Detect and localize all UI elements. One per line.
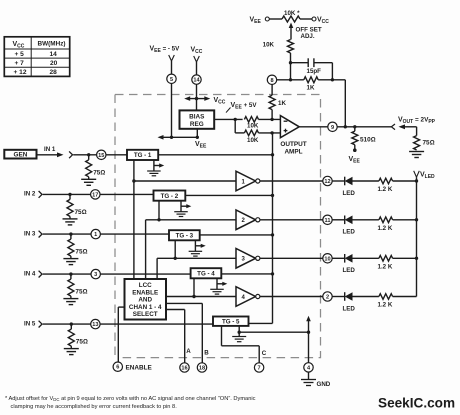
wire channel-2 select: [146, 201, 161, 279]
generator GEN source: [4, 146, 56, 159]
wire pin 15 to TG-1: [106, 154, 127, 156]
svg-text:10K: 10K: [247, 122, 259, 129]
transmission gate TG-3: [169, 230, 200, 240]
svg-text:2: 2: [326, 295, 329, 301]
pin 11: [323, 215, 332, 224]
svg-text:IN 5: IN 5: [24, 320, 36, 327]
decoder LCC ENABLE AND CHAN 1-4 SELECT: [125, 279, 167, 320]
svg-text:8: 8: [270, 78, 273, 84]
svg-text:ADJ.: ADJ.: [301, 33, 315, 40]
svg-text:75Ω: 75Ω: [423, 140, 435, 147]
wire output row: [337, 125, 391, 128]
pin 13: [91, 319, 100, 328]
pin 8: [267, 75, 276, 84]
wire channel-4 select: [192, 278, 195, 298]
ground termination IN4: [63, 298, 78, 300]
svg-text:BW(MHz): BW(MHz): [38, 41, 66, 48]
potentiometer 10K* offset adjust: [250, 10, 330, 25]
wire pin5 stem: [171, 61, 173, 74]
resistor 510 ohm pulldown: [352, 127, 376, 152]
svg-text:IN 3: IN 3: [24, 230, 36, 237]
resistor 1.2K LED 4: [353, 294, 417, 309]
wire GEN to IN1 node: [37, 151, 97, 158]
input IN 2: [24, 191, 91, 198]
svg-text:10K: 10K: [247, 137, 259, 144]
resistor 75 ohm termination IN1: [86, 155, 106, 180]
buffer 3 LED driver: [236, 249, 260, 269]
resistor 75 ohm load: [414, 136, 435, 150]
svg-text:9: 9: [331, 125, 334, 131]
svg-text:12: 12: [324, 179, 330, 185]
LED channel 3: [332, 254, 355, 274]
svg-text:18: 18: [199, 366, 205, 372]
svg-text:* Adjust offset for VDC at pin: * Adjust offset for VDC at pin 9 equal t…: [5, 396, 256, 402]
svg-text:28: 28: [50, 69, 58, 76]
svg-text:510Ω: 510Ω: [360, 137, 376, 144]
wire pin 1 to TG-3: [100, 233, 169, 235]
svg-text:CHAN 1 - 4: CHAN 1 - 4: [129, 304, 162, 311]
wire pin5 to VEE rail: [171, 84, 173, 138]
svg-text:1K: 1K: [307, 85, 315, 92]
svg-text:OUTPUT: OUTPUT: [280, 141, 306, 148]
pin 14: [192, 75, 201, 84]
resistor 10K upper: [244, 117, 280, 130]
ground termination IN3: [63, 258, 78, 260]
resistor 75 ohm termination IN2: [67, 194, 87, 219]
svg-text:1.2 K: 1.2 K: [378, 263, 393, 270]
wire buffer-3 input row: [157, 257, 236, 259]
svg-text:IN 2: IN 2: [24, 191, 36, 198]
svg-text:B: B: [204, 350, 209, 357]
svg-text:TG - 2: TG - 2: [161, 193, 179, 200]
svg-text:LED: LED: [343, 229, 356, 236]
pin 12: [323, 176, 332, 185]
svg-text:GEN: GEN: [13, 152, 27, 159]
svg-text:IN 4: IN 4: [24, 270, 36, 277]
svg-text:14: 14: [193, 78, 200, 84]
svg-text:TG - 4: TG - 4: [197, 271, 215, 278]
svg-text:ENABLE: ENABLE: [132, 289, 158, 296]
wire buffer-1 input row: [134, 180, 236, 182]
transmission gate TG-5: [213, 317, 249, 326]
svg-text:LED: LED: [343, 305, 356, 312]
svg-text:1K: 1K: [278, 100, 286, 107]
pin 3: [91, 269, 100, 278]
wire pin14 to bias regulator: [196, 84, 198, 110]
node mux bus junctions: [271, 153, 274, 275]
wire op-amp output: [299, 126, 328, 128]
wire pin 17 to TG-2: [100, 193, 154, 195]
resistor 1.2K LED 1: [353, 178, 417, 193]
svg-text:1: 1: [94, 232, 97, 238]
wire TG-3 output to mux bus: [200, 234, 273, 236]
wire bias reg to VEE rail: [196, 129, 198, 138]
wire feedback to output node: [344, 80, 346, 127]
transmission gate TG-1: [127, 150, 158, 160]
resistor 1.2K LED 3: [353, 255, 417, 270]
connector chevron output: [391, 124, 395, 130]
pin 16: [180, 363, 189, 372]
svg-text:AND: AND: [138, 297, 152, 304]
ground TG-3: [189, 240, 206, 256]
resistor 75 ohm termination IN3: [68, 234, 88, 259]
wire to load with arrow: [399, 124, 417, 135]
resistor 1K feedback: [277, 77, 346, 92]
pin 9: [328, 122, 337, 131]
LED channel 1: [332, 177, 355, 197]
svg-text:A: A: [186, 348, 191, 355]
wire select B: [166, 303, 209, 362]
ground TG-4: [210, 278, 227, 294]
wire buffer-4 input row: [166, 296, 236, 298]
wire ground rail to pin 4: [239, 316, 311, 363]
svg-text:+ 5: + 5: [15, 51, 25, 58]
net VEE + 5V label: [226, 102, 257, 113]
dashed IC package boundary: [115, 95, 321, 358]
svg-text:clamping may he accomplished b: clamping may he accomplished by error cu…: [11, 404, 178, 410]
svg-text:75Ω: 75Ω: [75, 289, 87, 296]
ground TG-5: [232, 326, 246, 342]
wire buffer 1 output to pin 12: [260, 180, 323, 182]
pin 10: [323, 254, 332, 263]
net VCC internal rail arrow: [184, 96, 226, 105]
ground TG-1: [147, 160, 164, 176]
svg-text:C: C: [262, 350, 267, 357]
resistor 75 ohm termination IN4: [68, 274, 88, 299]
resistor 1.2K LED 2: [353, 217, 417, 232]
label OFF SET ADJ.: [296, 27, 322, 41]
svg-text:+ 12: + 12: [14, 69, 27, 76]
svg-text:10K: 10K: [263, 42, 275, 49]
wire LED supply bus: [415, 177, 418, 296]
svg-text:LED: LED: [343, 267, 356, 274]
svg-text:11: 11: [325, 218, 331, 224]
net VEE internal rail arrow: [158, 135, 208, 150]
svg-text:AMPL: AMPL: [284, 148, 302, 155]
svg-text:16: 16: [181, 366, 187, 372]
ground GND external: [301, 372, 331, 388]
potentiometer wiper arrow: [289, 23, 294, 40]
svg-text:14: 14: [50, 51, 58, 58]
ground termination IN2: [63, 218, 78, 220]
wire buffer 2 output to pin 11: [260, 219, 323, 221]
input IN 3: [24, 230, 91, 237]
pin 1: [91, 229, 100, 238]
ground termination IN5: [64, 348, 79, 350]
wire buffer 3 output to pin 10: [260, 257, 323, 259]
svg-text:IN 1: IN 1: [44, 146, 56, 153]
net VLED supply: [414, 171, 435, 180]
svg-text:+ 7: + 7: [15, 60, 25, 67]
svg-text:75Ω: 75Ω: [76, 339, 88, 346]
svg-text:BIAS: BIAS: [189, 114, 205, 121]
svg-text:13: 13: [92, 322, 98, 328]
wire TG-5 output to mux bus: [249, 133, 273, 323]
svg-text:75Ω: 75Ω: [75, 209, 87, 216]
LED channel 2: [332, 216, 355, 236]
transmission gate TG-4: [191, 268, 222, 278]
svg-text:LED: LED: [343, 190, 356, 197]
svg-text:7: 7: [258, 366, 261, 372]
capacitor 15pF: [291, 58, 333, 75]
svg-text:TG - 3: TG - 3: [176, 233, 194, 240]
wire select A: [166, 310, 191, 363]
resistor 10K lower: [244, 130, 280, 144]
net VEE = -5V supply label: [150, 46, 181, 62]
svg-text:15: 15: [98, 153, 104, 159]
input IN 5: [24, 320, 91, 327]
resistor 75 ohm termination IN5: [68, 324, 88, 349]
pin 7: [254, 363, 263, 372]
svg-text:17: 17: [92, 192, 98, 198]
ground TG-2: [174, 201, 191, 217]
svg-text:REG: REG: [190, 121, 204, 128]
resistor 1K inverting input: [269, 85, 286, 122]
wire TG-2 output to mux bus: [185, 194, 272, 196]
svg-text:TG - 5: TG - 5: [222, 319, 240, 326]
wire buffer 4 output to pin 2: [260, 296, 323, 298]
buffer 2 LED driver: [236, 210, 260, 230]
svg-text:TG - 1: TG - 1: [134, 152, 152, 159]
wire channel-1 select (TG-1 to LCC): [132, 160, 135, 279]
svg-text:15pF: 15pF: [307, 68, 322, 75]
ground termination IN1: [81, 178, 96, 180]
pin 15: [97, 150, 106, 159]
pin 4: [304, 363, 313, 372]
svg-text:75Ω: 75Ω: [93, 169, 105, 176]
svg-text:1.2 K: 1.2 K: [378, 225, 393, 232]
pin 2: [323, 292, 332, 301]
svg-text:10: 10: [324, 256, 330, 262]
svg-text:75Ω: 75Ω: [75, 249, 87, 256]
svg-text:SeekIC.com: SeekIC.com: [378, 396, 455, 411]
wire cap to feedback corner: [331, 63, 333, 80]
buffer 4 LED driver: [236, 287, 260, 307]
svg-text:GND: GND: [317, 381, 331, 388]
pin 5: [167, 74, 176, 83]
wire channel-3 select: [157, 240, 177, 279]
wire buffer-2 input row: [146, 219, 236, 221]
pin 18: [197, 363, 206, 372]
svg-text:20: 20: [50, 60, 58, 67]
svg-text:6: 6: [116, 365, 119, 371]
ground load: [409, 151, 424, 153]
svg-text:LCC: LCC: [139, 282, 152, 289]
wire TG-4 output to mux bus: [221, 273, 272, 275]
bias regulator U-BIAS: [180, 110, 215, 128]
transmission gate TG-2: [154, 191, 186, 201]
wire pin 13 to TG-5: [100, 323, 213, 325]
op-amp OUTPUT AMPL: [280, 116, 306, 156]
svg-text:5: 5: [170, 77, 173, 83]
net VCC supply label: [191, 47, 203, 63]
input IN 4: [24, 270, 91, 277]
LED channel 4: [332, 292, 355, 312]
pin 6: [113, 362, 122, 371]
wire pin 3 to TG-4: [100, 273, 190, 275]
svg-text:SELECT: SELECT: [133, 311, 158, 318]
wire ENABLE from LCC: [118, 307, 124, 362]
svg-text:ENABLE: ENABLE: [126, 365, 153, 372]
buffer 1 LED driver: [236, 171, 260, 191]
table of VCC vs bandwidth: [4, 37, 69, 77]
svg-text:1.2 K: 1.2 K: [378, 302, 393, 309]
wire pin14 stem: [196, 62, 198, 75]
resistor 10K offset feed: [263, 40, 294, 82]
svg-text:1.2 K: 1.2 K: [378, 186, 393, 193]
svg-text:3: 3: [94, 272, 97, 278]
wire bias output node: [214, 118, 244, 133]
wire select C from TG-5: [222, 326, 267, 363]
pin 17: [91, 190, 100, 199]
wire TG-1 output to mux bus: [158, 154, 272, 156]
